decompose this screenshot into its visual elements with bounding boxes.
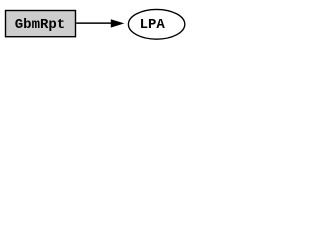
svg-text:GbmRpt: GbmRpt [15,17,65,33]
svg-text:LPA: LPA [140,17,166,33]
